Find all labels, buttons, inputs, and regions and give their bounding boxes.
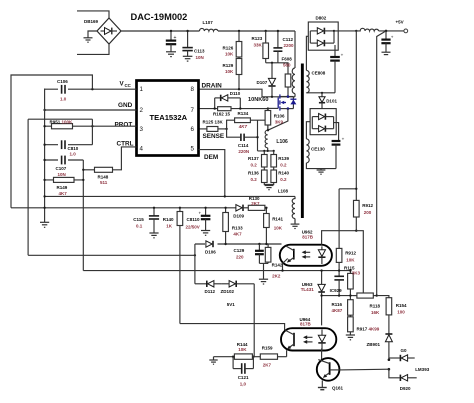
node GND at bus [43, 109, 45, 111]
wire secondary2 bottom row [306, 163, 336, 169]
svg-text:PROT: PROT [115, 122, 133, 129]
capacitor C810 [58, 140, 68, 149]
svg-text:R137: R137 [248, 156, 259, 161]
svg-text:DRAIN: DRAIN [202, 83, 223, 90]
svg-text:R159: R159 [262, 346, 273, 351]
node R125 out [225, 128, 227, 130]
wire GND row [45, 109, 137, 111]
wire DEM pin5 [199, 150, 225, 197]
svg-text:0.1: 0.1 [136, 224, 143, 229]
wire R140 long vertical [179, 226, 181, 324]
wire feedback vertical x83 [82, 160, 84, 271]
wire ref row y295.6 [322, 295, 353, 297]
svg-text:+: + [174, 35, 177, 41]
svg-text:L108: L108 [278, 189, 289, 194]
capacitor IC929 [334, 276, 344, 295]
resistor R159 [260, 354, 277, 359]
svg-text:CE808: CE808 [312, 71, 326, 76]
capacitor CE808 [330, 45, 343, 93]
capacitor C115 [149, 208, 159, 233]
rectifier D802 (dual diode) [308, 22, 338, 50]
svg-text:F608: F608 [282, 57, 293, 62]
wire d-row vertical x195 [194, 244, 196, 284]
capacitor C106 [58, 85, 68, 94]
svg-text:0.2: 0.2 [280, 163, 287, 168]
diode D106 [205, 241, 218, 248]
svg-text:C112: C112 [283, 37, 294, 42]
resistor R116 [348, 300, 354, 316]
wire U962 emitter to CTRL line [283, 259, 288, 271]
ground at bridge [84, 38, 93, 42]
svg-text:4K7: 4K7 [233, 232, 242, 237]
capacitor C110 (bulk electrolytic) [166, 31, 177, 52]
node source [267, 129, 269, 131]
resistor R141 [265, 208, 267, 214]
wire ground to R144 [214, 356, 235, 358]
svg-text:L106: L106 [276, 139, 288, 145]
wire bus2 [11, 207, 236, 209]
svg-text:+: + [342, 137, 345, 142]
diode D110 [215, 95, 241, 109]
svg-text:D802: D802 [316, 16, 327, 21]
inductor L output [356, 28, 378, 31]
svg-text:1.0: 1.0 [60, 96, 67, 101]
diode D101a (small) [319, 93, 325, 109]
svg-text:R136: R136 [248, 171, 259, 176]
zener ZD102 [221, 281, 254, 287]
svg-text:TEA1532A: TEA1532A [150, 113, 188, 122]
capacitor CE130 [332, 137, 345, 169]
svg-text:R126: R126 [223, 46, 234, 51]
bridge rectifier DB169 [97, 18, 121, 44]
transformer secondary winding 1 [306, 70, 309, 92]
svg-text:D109: D109 [233, 214, 244, 219]
svg-text:R148: R148 [98, 175, 109, 180]
svg-text:C114: C114 [238, 143, 249, 148]
svg-text:C121: C121 [238, 375, 249, 380]
transformer primary winding [292, 68, 295, 94]
svg-text:C107: C107 [56, 166, 67, 171]
svg-text:100K: 100K [62, 120, 74, 125]
resistor R126 [238, 31, 240, 42]
svg-text:5V1: 5V1 [227, 302, 236, 307]
wire R149 row [45, 179, 84, 181]
svg-text:R951: R951 [50, 120, 61, 125]
transistor Q161 [317, 358, 340, 387]
svg-text:R154: R154 [396, 303, 407, 308]
wire CTRL opto feed y323.6 [180, 324, 285, 331]
wire row3 [195, 243, 282, 245]
svg-text:4K7: 4K7 [59, 191, 68, 196]
svg-text:R106: R106 [274, 114, 285, 119]
wire L106 bottom to sense resistors [267, 148, 269, 151]
svg-text:D107: D107 [257, 80, 268, 85]
svg-text:R134: R134 [238, 111, 249, 116]
node drain at F608 [287, 96, 289, 98]
resistor R148 [95, 167, 113, 172]
wire zener row down to R144 node [253, 284, 255, 357]
resistor R137 [263, 151, 265, 155]
wire pin7 to R162 [199, 108, 218, 110]
svg-text:3K3: 3K3 [352, 271, 361, 276]
svg-text:10N: 10N [196, 55, 204, 60]
capacitor C114 [227, 120, 258, 151]
svg-text:2200: 2200 [284, 43, 295, 48]
svg-text:R139: R139 [278, 156, 289, 161]
svg-text:R912: R912 [345, 251, 356, 256]
wire R148 to CTRL [113, 147, 137, 170]
resistor R149 [54, 177, 75, 182]
wire secondary1 bottom row [306, 92, 335, 94]
svg-text:R133: R133 [232, 226, 243, 231]
svg-text:R917 4K99: R917 4K99 [357, 327, 380, 332]
zener ZB901 [385, 334, 392, 360]
svg-text:100: 100 [397, 310, 405, 315]
resistor R118 (horizontal) [353, 295, 357, 297]
ground below C113 [183, 56, 193, 61]
svg-text:4K7: 4K7 [238, 124, 248, 129]
LED D920 [389, 369, 417, 381]
svg-text:C810: C810 [68, 146, 79, 151]
wire C129/R142 bottom join [259, 262, 268, 264]
resistor R917 [348, 317, 354, 332]
svg-text:CC: CC [125, 83, 132, 88]
wire PROT row [45, 125, 137, 127]
resistor R162 [218, 107, 231, 111]
wire C107 row [45, 159, 84, 161]
svg-text:R141: R141 [272, 217, 283, 222]
ground below R142 [259, 279, 268, 284]
resistor R125 [199, 128, 207, 130]
ground below C110 [166, 52, 176, 57]
svg-text:+: + [391, 35, 394, 40]
optocoupler U962 [280, 245, 332, 266]
wire secondary1 top to D802 [306, 36, 308, 70]
svg-text:R118: R118 [370, 304, 381, 309]
wire primary ground bus1 [45, 195, 295, 197]
wire primary bottom to drain [294, 94, 296, 97]
wire +5V down line x356 [355, 31, 357, 201]
svg-text:L107: L107 [203, 20, 214, 25]
node snubber [271, 62, 273, 64]
svg-text:817B: 817B [300, 322, 312, 327]
ground below sense resistors [265, 185, 274, 190]
wire CTRL feedback long y270 [83, 270, 350, 272]
wire L out to terminal [379, 30, 404, 32]
capacitor C121 (parallel R144) [233, 357, 253, 374]
capacitor CE out [381, 31, 393, 52]
svg-text:33K: 33K [254, 43, 263, 48]
capacitor C129 [255, 244, 264, 263]
svg-text:R125 13K: R125 13K [203, 120, 224, 125]
wire U964 LED cathode to Q161 [321, 349, 323, 361]
MOSFET Q (10NK60) [268, 94, 297, 110]
wire outer loop top [11, 75, 92, 208]
svg-text:R140: R140 [163, 217, 174, 222]
wire secondary2 top to D101 box [306, 122, 310, 139]
svg-text:SENSE: SENSE [203, 133, 225, 140]
svg-text:10K: 10K [225, 69, 234, 74]
capacitor C107 [58, 156, 68, 165]
resistor R951 [52, 124, 73, 129]
svg-text:IC929: IC929 [330, 288, 343, 293]
wire +5V down line x377 [377, 31, 386, 296]
svg-text:10K: 10K [225, 52, 234, 57]
transformer secondary winding 2 [306, 139, 309, 163]
svg-text:0.2: 0.2 [280, 177, 287, 182]
svg-text:10N: 10N [58, 172, 66, 177]
svg-text:3: 3 [140, 126, 144, 133]
node dot rail at C113 [186, 30, 188, 32]
diode D109 (on bus2) [236, 205, 248, 211]
svg-text:6: 6 [191, 126, 195, 133]
ground below R917 [346, 335, 355, 340]
svg-text:R162 15: R162 15 [213, 111, 231, 116]
wire C810 row [45, 144, 93, 146]
node dot rail at R123 [265, 30, 267, 32]
rectifier D101 (dual diode) [310, 109, 336, 135]
ground below Q161 [318, 388, 327, 390]
svg-text:0.2: 0.2 [251, 163, 258, 168]
wire rail to primary top [294, 31, 296, 68]
wire PROT stub loop [28, 118, 92, 120]
svg-text:+5V: +5V [396, 20, 404, 25]
node pin7 [214, 107, 216, 109]
node drain at R129 [238, 88, 240, 90]
resistor R912 [339, 188, 356, 190]
svg-text:2K7: 2K7 [263, 363, 272, 368]
wire MOSFET source to L106 [268, 109, 288, 131]
resistor R134 [227, 120, 235, 129]
node +5V rail junctions [355, 30, 357, 32]
svg-text:C113: C113 [194, 49, 205, 54]
capacitor CE110 [199, 208, 211, 230]
resistor R136 [263, 167, 265, 170]
wire VCC row [45, 88, 137, 90]
svg-text:DEM: DEM [204, 154, 218, 161]
node dot rail at R126 [238, 30, 240, 32]
fusible resistor F608 [278, 63, 291, 97]
wire HV rail after L107 [218, 30, 295, 32]
svg-text:2: 2 [140, 107, 144, 114]
resistor R140b [273, 167, 275, 170]
svg-text:+: + [199, 211, 202, 216]
wire Q161 collector to LED node [339, 368, 389, 371]
svg-text:D112: D112 [205, 289, 216, 294]
resistor R106 (gate) [267, 108, 269, 110]
op-amp/controller U TEA1532A [137, 81, 199, 156]
resistor R115 [349, 271, 351, 274]
resistor R123 [265, 31, 267, 43]
svg-text:817B: 817B [302, 235, 314, 240]
svg-text:DB169: DB169 [84, 19, 99, 24]
wire snubber bottom node [266, 62, 278, 64]
svg-text:G0: G0 [401, 348, 408, 353]
svg-text:16K: 16K [371, 310, 380, 315]
wire sense resistor top node [258, 150, 274, 152]
node gate [267, 107, 269, 109]
resistor R130 [248, 205, 265, 210]
svg-text:4: 4 [140, 146, 144, 153]
resistor R133 [225, 208, 227, 213]
resistor R144 [234, 354, 252, 359]
wire AC line top [77, 11, 109, 18]
svg-text:5: 5 [191, 146, 195, 153]
svg-text:8: 8 [191, 86, 195, 93]
wire R148 row [83, 169, 94, 171]
resistor R142 [267, 244, 269, 247]
svg-text:D920: D920 [400, 386, 411, 391]
svg-text:200: 200 [364, 210, 372, 215]
svg-text:220: 220 [236, 255, 244, 260]
svg-text:Q161: Q161 [332, 386, 344, 391]
ground below CE out [382, 52, 391, 54]
svg-text:1K: 1K [166, 224, 173, 229]
wire AC line bottom [77, 44, 109, 54]
svg-text:D101: D101 [326, 99, 337, 104]
svg-text:7: 7 [191, 107, 195, 114]
svg-text:10NK60: 10NK60 [248, 97, 269, 103]
wire mid-left long link y255 [28, 254, 195, 256]
svg-text:220N: 220N [238, 149, 249, 154]
svg-text:ZD102: ZD102 [221, 289, 235, 294]
svg-text:10K: 10K [346, 258, 355, 263]
diode D112 [195, 281, 222, 287]
wire D802 out to +5V rail [334, 30, 356, 32]
svg-text:0.2: 0.2 [251, 177, 258, 182]
svg-text:C106: C106 [57, 79, 68, 84]
svg-text:10K: 10K [274, 226, 283, 231]
svg-text:D110: D110 [230, 91, 241, 96]
ground secondary [317, 169, 326, 175]
svg-text:GND: GND [118, 102, 133, 109]
svg-text:4K87: 4K87 [332, 308, 343, 313]
LED D919 [389, 355, 415, 361]
transformer core [301, 64, 304, 219]
svg-text:10K: 10K [238, 347, 247, 352]
inductor L108 (aux winding) [292, 196, 295, 218]
svg-text:C8110: C8110 [187, 217, 201, 222]
svg-text:R149: R149 [57, 185, 68, 190]
svg-text:1: 1 [140, 86, 144, 93]
wire R144-R159 node [252, 356, 260, 358]
node drain at D107 [271, 96, 273, 98]
svg-text:DAC-19M002: DAC-19M002 [131, 12, 188, 22]
wire to R118h x363 [356, 231, 363, 293]
ground below CE110 [201, 231, 210, 236]
svg-text:2K7: 2K7 [251, 201, 260, 206]
wire C810 right vertical [91, 119, 93, 145]
svg-text:R123: R123 [252, 36, 263, 41]
svg-text:R129: R129 [223, 63, 234, 68]
optocoupler U964 [281, 328, 336, 350]
resistor R139 [273, 151, 275, 155]
svg-text:511: 511 [100, 180, 108, 185]
wire U962 LED anode row [322, 231, 357, 245]
svg-text:LM393: LM393 [415, 367, 430, 372]
svg-text:D106: D106 [205, 250, 216, 255]
svg-text:C115: C115 [133, 217, 144, 222]
capacitor C112 [273, 31, 282, 63]
svg-text:R116: R116 [332, 302, 343, 307]
svg-text:ZB901: ZB901 [367, 342, 381, 347]
wire left vertical x28 [27, 119, 29, 255]
svg-text:1,0: 1,0 [240, 381, 247, 386]
shunt reg U963 TL431 [318, 271, 325, 326]
svg-text:1.0: 1.0 [70, 152, 77, 157]
node R913/CTRL line [338, 269, 340, 271]
node dot rail at C110 [170, 30, 172, 32]
resistor R140 [179, 208, 181, 212]
ground at R144 left [209, 357, 217, 365]
diode D107 [268, 63, 275, 97]
wire D101 out to CE130 [334, 123, 339, 141]
wire sense resistor bottom join [264, 183, 273, 185]
ground at left bus bottom [40, 222, 49, 227]
ground below L108 [291, 219, 300, 229]
svg-text:22/50V: 22/50V [186, 225, 200, 230]
node VCC [91, 88, 93, 90]
svg-text:560: 560 [283, 63, 291, 68]
inductor L106 [265, 130, 268, 148]
svg-text:3K9: 3K9 [275, 120, 284, 125]
svg-text:2K2: 2K2 [272, 274, 281, 279]
svg-text:R142: R142 [272, 263, 283, 268]
wire R162 right to gate node [231, 108, 268, 110]
resistor R913 [338, 189, 340, 249]
wire drain net [199, 89, 296, 97]
terminal +5V [404, 29, 408, 33]
svg-text:C129: C129 [234, 248, 245, 253]
capacitor C113 [182, 31, 192, 56]
svg-text:CE130: CE130 [311, 147, 325, 152]
svg-text:R140: R140 [278, 171, 289, 176]
svg-text:+: + [341, 53, 344, 58]
svg-text:TL431: TL431 [301, 287, 315, 292]
wire left bus vertical [44, 89, 46, 223]
wire HV rail [121, 30, 200, 32]
resistor R129 [236, 59, 242, 75]
wire bridge left to ground [88, 31, 97, 38]
ground below C115 [149, 233, 158, 238]
resistor R154 [377, 296, 389, 298]
svg-text:R912: R912 [362, 203, 373, 208]
inductor L107 [200, 28, 219, 31]
